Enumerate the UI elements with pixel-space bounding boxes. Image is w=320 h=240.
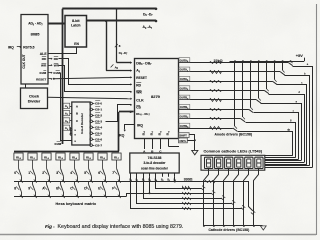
- wire WR 8085 to 8279: [59, 66, 131, 92]
- wire IO/M down to decoder enable: [61, 73, 72, 141]
- anode driver transistor row 6: [241, 119, 245, 122]
- keyboard column RL7: [112, 153, 121, 160]
- collector wire to segment d: [269, 95, 305, 163]
- emitter common rail of cathode drivers: [204, 225, 263, 227]
- wire S3 drop to row2 line: [149, 177, 151, 193]
- emitter drop from +5V rail row 2: [274, 61, 276, 79]
- key switch B: [60, 181, 62, 184]
- key switch 4: [75, 168, 78, 176]
- arrows on 8085 control pins: [48, 58, 51, 60]
- key switch 3: [61, 168, 64, 176]
- controller 8279: [135, 59, 179, 139]
- emitter drop from +5V rail row 1: [282, 61, 284, 70]
- address tap A1: [62, 113, 63, 115]
- key switch 6: [103, 168, 106, 176]
- seven segment display digit 2: [215, 157, 223, 168]
- decoder output CS-5: [90, 132, 93, 135]
- seven segment display digit 4: [235, 157, 243, 168]
- key switch D: [88, 181, 90, 184]
- anode driver transistor row 3: [265, 91, 269, 94]
- label OUTB2: [179, 114, 190, 118]
- wire RL bus from keyboard to 8279: [119, 111, 134, 113]
- key switch 1: [33, 168, 36, 176]
- wire IRQ stub from 8279: [125, 125, 135, 130]
- ground symbol bottom right: [260, 226, 266, 230]
- key switch 0: [19, 168, 22, 176]
- pin SHIFT of 8279: [179, 133, 190, 138]
- latch 8-bit (74LS373): [65, 16, 87, 48]
- collector wire to segment c: [277, 85, 307, 165]
- junction dot AD bus / address drop: [61, 22, 63, 24]
- key switch 9: [32, 181, 34, 184]
- wire clock divider to 8279 CLK: [48, 97, 131, 99]
- resistor 22k row 5: [210, 109, 222, 111]
- decoder output CS-2: [90, 114, 93, 117]
- display output row OUTA2 wire: [179, 81, 273, 83]
- address tap A2: [62, 120, 63, 122]
- keyboard scan row 1 wire (S7): [14, 181, 249, 183]
- label OUTA1: [179, 67, 190, 71]
- collector wire to segment a: [293, 67, 313, 168]
- label OUTB1: [179, 105, 190, 109]
- display output row OUTB3 wire: [179, 128, 233, 130]
- wire SHIFT CNTL to ground: [190, 135, 195, 151]
- collector wire to segment b: [285, 76, 310, 166]
- wire S4 base line digit1: [156, 177, 202, 189]
- anode driver transistor row 7: [233, 128, 237, 131]
- keyboard column RL2: [42, 153, 51, 160]
- 330 ohm resistors on base lines: [183, 187, 191, 190]
- 74LS138 output S5: [162, 173, 164, 177]
- decoder 3-to-8 (address decoder): [72, 102, 90, 145]
- resistor 22k row 2: [210, 81, 222, 83]
- page bottom scan edge: [0, 234, 316, 236]
- decoder 74LS138 scan line decoder: [130, 153, 179, 173]
- decoder output CS-1: [90, 108, 93, 111]
- decoder output CS-7: [90, 144, 93, 147]
- keyboard column RL5: [84, 153, 93, 160]
- wire A0 to 8279: [106, 21, 108, 71]
- wire IRQ into RST5.5: [17, 46, 21, 48]
- wire CS-3 to 8279 CS: [106, 105, 131, 122]
- anode driver transistor row 5: [249, 109, 253, 112]
- junction dot D bus drop: [116, 8, 118, 10]
- label OUTB0: [179, 95, 190, 99]
- wire RD 8085 to 8279: [59, 59, 131, 85]
- cathode driver transistor digit 4: [231, 203, 234, 205]
- key switch 5: [89, 168, 92, 176]
- microprocessor 8085: [21, 15, 48, 85]
- key switch 2: [47, 168, 50, 176]
- junction dot A0 drop on address bus: [105, 20, 107, 22]
- emitter drop from +5V rail row 5: [250, 61, 252, 107]
- pin SL3: [168, 139, 170, 147]
- 74LS138 output S6: [168, 173, 170, 177]
- label OUTA3: [179, 86, 190, 90]
- collector wire to segment dp: [238, 132, 293, 156]
- wire ALE to latch EN: [49, 47, 77, 54]
- wire S2 base line digit3: [144, 177, 222, 199]
- wire RESET 8085 to 8279: [54, 77, 131, 78]
- keyboard column RL3: [56, 153, 65, 160]
- resistor 22k row 4: [210, 99, 222, 102]
- collector wire to segment g: [246, 123, 296, 158]
- display output row OUTB0 wire: [179, 99, 257, 101]
- clock divider block: [21, 88, 48, 109]
- decoder output CS-0: [90, 102, 93, 105]
- scan row1 wire bend to digit6 driver: [249, 182, 253, 211]
- address tap A3: [62, 127, 63, 129]
- decoder output CS-6: [90, 138, 93, 141]
- collector wire to segment f: [254, 113, 299, 160]
- keyboard scan row 2 wire: [14, 196, 126, 198]
- bus AD0-AD7 from 8085 to latch: [48, 23, 65, 25]
- cathode wire digit 5: [244, 169, 249, 226]
- resistor 22k row 7: [210, 127, 222, 130]
- 74LS138 output S3: [149, 173, 151, 177]
- cathode wire digit 1: [204, 169, 209, 226]
- emitter drop from +5V rail row 3: [266, 61, 268, 89]
- 74LS138 output S1: [136, 173, 138, 177]
- 74LS138 output S0: [130, 173, 132, 177]
- 74LS138 output S7: [174, 173, 176, 177]
- emitter drop from +5V rail row 4: [258, 61, 260, 98]
- emitter drop from +5V rail row 0: [290, 60, 292, 62]
- cathode driver transistor digit 6: [251, 213, 254, 215]
- cathode wire digit 6: [254, 169, 259, 226]
- key switch 7: [117, 168, 120, 176]
- wire CLK OUT to clock divider: [25, 84, 27, 88]
- +5V supply rail: [230, 61, 305, 63]
- address tap A0: [62, 106, 63, 108]
- wire D0-D7 to 8279 DB0-DB7: [116, 9, 118, 63]
- key switch 8: [18, 181, 20, 184]
- seven segment display digit 6: [255, 157, 263, 168]
- 74LS138 output S4: [155, 173, 157, 177]
- keyboard column RL0: [14, 153, 23, 160]
- 74LS138 output S2: [143, 173, 145, 177]
- key switch A: [46, 181, 48, 184]
- decoder output CS-3: [90, 120, 93, 123]
- display output row OUTA0 wire: [179, 62, 289, 64]
- anode driver transistor row 2: [272, 81, 276, 84]
- emitter drop from +5V rail row 6: [242, 61, 244, 117]
- display output row OUTA3 wire: [179, 90, 265, 92]
- keyboard column RL4: [70, 153, 79, 160]
- bus D0-D7 data bus: [62, 8, 156, 10]
- decoder output CS-4: [90, 126, 93, 129]
- cathode wire digit 4: [234, 169, 239, 226]
- cathode driver transistor digit 1: [201, 188, 204, 190]
- cathode wire digit 3: [224, 169, 229, 226]
- bus A0-A7 address bus from latch: [87, 20, 157, 22]
- key switch C: [74, 181, 76, 184]
- wire S1 base line digit4: [137, 177, 232, 204]
- pin SL1: [152, 139, 154, 150]
- label OUTA0: [179, 58, 190, 62]
- anode driver transistor row 0: [288, 63, 292, 66]
- anode driver transistor row 1: [280, 72, 284, 75]
- address bit drop vertical to decoder: [62, 9, 64, 144]
- seven segment display digit 1: [205, 157, 213, 168]
- cathode driver transistor digit 5: [241, 208, 244, 210]
- display output row OUTB2 wire: [179, 118, 241, 120]
- pin SL0: [144, 139, 146, 150]
- key switch E: [102, 181, 104, 184]
- seven segment display row box: [201, 155, 265, 170]
- keyboard column RL6: [98, 153, 107, 160]
- label OUTB3: [179, 123, 190, 127]
- seven segment display digit 5: [245, 157, 253, 168]
- collector wire to segment e: [261, 104, 302, 161]
- keyboard column RL1: [28, 153, 37, 160]
- display output row OUTA1 wire: [179, 71, 281, 73]
- wire SL3 bend: [169, 146, 180, 148]
- segment bus into displays: [265, 155, 293, 157]
- pin CNTL of 8279: [179, 138, 188, 143]
- pin SL2: [160, 139, 162, 150]
- wire A3 to G2A G2B enables: [70, 128, 71, 135]
- key switch F: [116, 181, 118, 184]
- cathode driver transistor digit 3: [221, 198, 224, 200]
- resistor 22k row 6: [210, 118, 222, 120]
- seven segment display digit 3: [225, 157, 233, 168]
- wire S0 base line digit5: [131, 177, 242, 209]
- resistor 22k row 3: [210, 90, 222, 92]
- ground symbol near 8279: [192, 150, 198, 154]
- anode driver transistor row 4: [257, 100, 261, 103]
- resistor 22k row 0: [210, 62, 222, 64]
- cathode driver transistor digit 2: [211, 193, 214, 195]
- resistor 22k row 1: [210, 71, 222, 74]
- display output row OUTB1 wire: [179, 109, 249, 111]
- keyboard return-line top bus: [14, 151, 119, 153]
- label OUTA2: [179, 76, 190, 80]
- cathode wire digit 2: [214, 169, 219, 226]
- emitter drop from +5V rail row 7: [234, 61, 236, 126]
- page right scan edge: [316, 4, 318, 235]
